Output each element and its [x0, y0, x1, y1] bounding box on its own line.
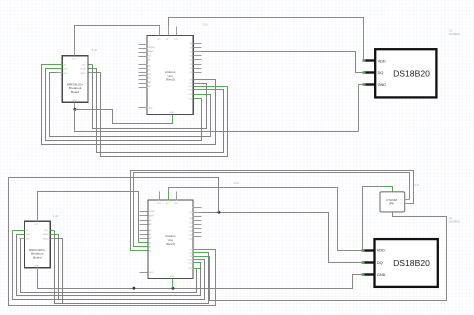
svg-text:VDD: VDD: [378, 59, 386, 63]
svg-text:3.3V: 3.3V: [234, 181, 240, 185]
svg-text:GND: GND: [34, 265, 39, 267]
svg-text:V+: V+: [401, 200, 403, 202]
wire DQ2 IC2 right pin to DS18B20-2 DQ: [202, 213, 362, 263]
wire green segment breakout1 left pin1: [42, 65, 97, 69]
svg-text:VIN: VIN: [174, 203, 178, 205]
wire DQ1 IC1 right pin to DS18B20-1 DQ: [202, 52, 363, 73]
svg-text:VCC: VCC: [72, 59, 77, 61]
svg-text:GND: GND: [148, 108, 153, 110]
wire breakout2 right pin2 vertical: [55, 235, 59, 300]
wire VDD2 branch to battery top pin: [363, 187, 383, 251]
svg-text:RESET: RESET: [148, 47, 155, 49]
svg-text:AREF: AREF: [149, 215, 155, 218]
junction GND2 secondary: [133, 287, 136, 290]
svg-text:Board: Board: [33, 256, 42, 260]
svg-text:GND: GND: [377, 273, 386, 277]
svg-text:LITHIUM: LITHIUM: [386, 198, 398, 202]
svg-text:3.3V: 3.3V: [202, 23, 208, 27]
temperature sensor DS18B20 circuit1: [363, 49, 437, 97]
svg-text:DQ: DQ: [377, 261, 383, 265]
wire GND2 breakout2 bottom to DS18B20-2 GND: [38, 268, 362, 289]
svg-text:Board: Board: [71, 90, 80, 94]
breakout board 2 NRF24L01+: [20, 217, 55, 273]
wire breakout2 right pin3 vertical: [55, 239, 63, 304]
svg-text:1 µF: 1 µF: [53, 214, 59, 218]
wire SPI2 loop4 IC2 to breakout2 right pin1: [55, 231, 209, 304]
svg-text:VCC: VCC: [34, 224, 39, 226]
wire green segments IC2 right pins: [193, 250, 216, 269]
wire green segments IC1 right pins: [194, 80, 228, 99]
wire VDD1 green tip at DS18B20-1 VDD pin: [363, 58, 364, 61]
svg-text:IRQ: IRQ: [82, 65, 86, 67]
wire GND1 breakout1 bottom to junction: [74, 103, 76, 110]
svg-text:GND: GND: [72, 100, 77, 102]
temperature sensor DS18B20 circuit2: [362, 239, 438, 287]
svg-text:MISO: MISO: [81, 73, 87, 75]
wire breakout2 top to IC2 left pin: [38, 192, 140, 243]
wire GND1 vertical to DS18B20-1 GND pin: [359, 85, 363, 132]
wire VDD2 green tail into battery top pin: [383, 187, 393, 192]
svg-text:SCK: SCK: [63, 73, 68, 75]
svg-text:MOSI: MOSI: [43, 234, 49, 236]
op-amp U2 microcontroller IC2: [140, 192, 202, 283]
svg-text:DS18B20: DS18B20: [449, 219, 461, 223]
svg-text:CSN: CSN: [63, 69, 68, 71]
wire green segment breakout2 pins: [13, 231, 59, 235]
junction DQ2: [217, 211, 220, 214]
wire SPI2 loop3 IC2 to breakout2 left pin3: [13, 231, 205, 300]
svg-text:DS18B20: DS18B20: [393, 69, 430, 79]
wire VDD2 IC2 top pin to DS18B20-2 VDD: [169, 188, 362, 251]
wire VCC1 green tip at breakout1 top pin: [74, 52, 76, 56]
wire SPI2 loop2 IC2 to breakout2 left pin2: [17, 235, 202, 296]
svg-text:GND: GND: [170, 276, 175, 278]
svg-text:IRQ: IRQ: [44, 230, 48, 232]
label DS18B20-1 part: [449, 28, 461, 35]
wire green segments IC2 left pins: [131, 239, 148, 251]
wire GND2 green segment IC2 GND pin: [172, 279, 174, 289]
wire GND1 junction to IC1 GND pin: [75, 110, 143, 124]
svg-text:(Rev3): (Rev3): [166, 78, 175, 82]
svg-text:DS18B20: DS18B20: [393, 258, 430, 268]
wire VDD1 IC1 top pin to DS18B20-1 VDD: [169, 18, 364, 58]
svg-text:(Rev3): (Rev3): [166, 242, 175, 246]
wire GND1 green segment to IC1 GND pin: [143, 115, 173, 124]
svg-text:GND: GND: [170, 112, 175, 114]
junction GND2 at IC2 GND pin: [171, 287, 174, 290]
wire net D long horizontal to DQ2 junction: [9, 178, 219, 306]
svg-text:U1: U1: [449, 28, 453, 32]
wire SPI1 loop2 IC1 pin to breakout1 left pin3: [50, 73, 211, 137]
wire SPI1 loop4 IC1 pin to breakout1 left pin1: [42, 65, 216, 145]
svg-text:AREF: AREF: [148, 50, 154, 53]
op-amp U1 microcontroller IC1: [139, 27, 202, 119]
svg-text:GND: GND: [149, 272, 154, 274]
svg-text:DS18B20: DS18B20: [449, 32, 461, 36]
svg-text:MOSI: MOSI: [81, 69, 87, 71]
junction GND1: [73, 108, 76, 111]
breakout board 1 NRF24L01+: [57, 51, 93, 107]
svg-text:MISO: MISO: [43, 238, 49, 240]
svg-text:DQ: DQ: [378, 71, 384, 75]
svg-text:CSN: CSN: [25, 234, 30, 236]
svg-text:RESET: RESET: [149, 211, 156, 213]
wire SPI2 loop1 IC2 to breakout2 left pin1: [20, 239, 202, 293]
svg-text:VDD: VDD: [377, 249, 385, 253]
wire GND1 junction to DS18B20-1 GND: [75, 110, 359, 132]
wire net R battery bottom pin loop to IC2 right pin: [202, 212, 447, 301]
svg-text:3PK: 3PK: [389, 202, 394, 206]
battery lithium coin cell: [380, 192, 410, 212]
svg-text:U2: U2: [449, 216, 453, 220]
svg-text:VIN: VIN: [174, 39, 178, 41]
svg-text:GND: GND: [378, 83, 387, 87]
label DS18B20-2 part: [449, 216, 461, 223]
svg-text:1 µF: 1 µF: [92, 48, 98, 52]
svg-text:SCK: SCK: [25, 238, 30, 240]
wire net Q battery right pin1 to IC2 left pin: [134, 173, 410, 247]
wire SPI1 loop5 IC1 pin to breakout1 right pin2: [93, 69, 224, 153]
wire SPI1 loop3 IC1 pin to breakout1 left pin2: [46, 69, 202, 141]
wire VCC1 breakout1 top to IC1 pin AREF: [75, 26, 160, 52]
wire SPI1 loop6 IC1 pin to breakout1 right pin3: [93, 73, 228, 157]
wire SPI1 loop1 IC1 pin to breakout1 right pin1: [93, 65, 207, 129]
wire net P battery right pin2 to IC2 left pin: [131, 171, 414, 251]
svg-text:4.7k: 4.7k: [414, 183, 420, 187]
